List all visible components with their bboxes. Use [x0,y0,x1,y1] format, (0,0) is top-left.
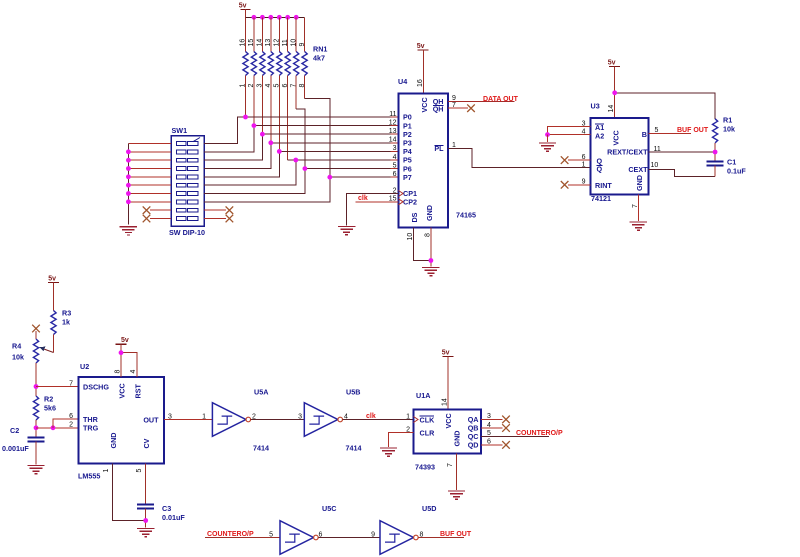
U4 left pin numbers [389,111,397,203]
node P0 row [246,116,399,118]
ground (U3 pin7) [630,222,647,230]
svg-text:11: 11 [389,111,396,118]
svg-text:U5D: U5D [422,504,436,513]
svg-text:5: 5 [655,127,659,134]
svg-text:1: 1 [103,469,110,473]
resistor RN1-e [277,52,282,76]
wire U3 pin3 [548,127,591,135]
wire clk CP1 to ground [347,194,399,226]
svg-text:6: 6 [487,439,491,446]
svg-text:clk: clk [366,413,376,420]
svg-text:GND: GND [425,205,434,221]
resistor R1 [713,119,718,143]
junction dot 5v rail [612,90,617,95]
wire SW1 row8 riser [204,177,330,202]
U1A clock arrow [414,417,419,423]
svg-text:4: 4 [130,370,137,374]
R4 bottom lead [35,363,37,396]
svg-text:3: 3 [298,413,302,420]
svg-text:0.001uF: 0.001uF [2,444,29,453]
svg-text:6: 6 [582,154,586,161]
resistor RN1-c [260,52,265,76]
svg-text:15: 15 [248,39,255,47]
wire U5A out to U5B in [251,419,305,421]
resistor RN1-b [251,52,256,76]
wire COUNTERO/P to U5C [205,537,280,539]
ground (C3) [137,529,154,537]
junction dots on 5v rail [252,15,299,20]
svg-text:RINT: RINT [595,181,612,190]
svg-text:1: 1 [406,413,410,420]
wire U1A CLR to ground [389,433,414,448]
wire to DSCHG pin 7 [36,386,79,388]
svg-text:10: 10 [407,233,414,241]
node P7 row [330,176,399,178]
svg-text:6: 6 [69,413,73,420]
svg-text:RST: RST [134,384,143,399]
wire U2 CV pin5 to C3 [145,464,147,505]
inverter U5C [280,521,318,555]
svg-text:14: 14 [608,105,615,113]
potentiometer R4 [33,339,38,363]
no-connect pin6 [561,156,569,164]
svg-text:1: 1 [582,161,586,168]
svg-text:74121: 74121 [591,194,611,203]
U4 left pin stubs (red) [391,117,399,177]
wire 5v rail to R1 [615,93,715,119]
svg-text:11: 11 [654,146,661,153]
svg-text:13: 13 [389,128,397,135]
svg-text:DS: DS [410,212,419,222]
wire U3 pin10 CEXT to C1 bottom [649,169,716,176]
power symbol 5v (RN1 rail) [239,3,251,18]
wire A1A2 to ground [547,135,549,142]
svg-text:10: 10 [290,39,297,47]
junction dots on P rows [243,115,332,180]
svg-text:3: 3 [582,120,586,127]
svg-text:16: 16 [240,39,247,47]
resistor RN1-d [268,52,273,76]
wire OUT pin 3 to U5A [164,419,212,421]
node P5 row [288,159,399,161]
node P2 row [262,133,398,135]
SW1 left pin wires rows 1-8 [128,144,171,202]
op-amp U3 74121 box [591,118,649,195]
C2 bottom lead [35,442,37,465]
svg-text:DSCHG: DSCHG [83,383,109,392]
node P1 row [254,125,399,127]
svg-text:COUNTERO/P: COUNTERO/P [516,430,563,437]
svg-text:10: 10 [651,162,659,169]
svg-text:1k: 1k [62,318,70,327]
inverter U5B [304,403,342,437]
svg-text:GND: GND [109,433,118,449]
resistor R3 [51,311,56,335]
svg-text:5v: 5v [417,43,425,50]
wire to TRG pin 2 [36,427,79,429]
switch SW1 body [171,136,204,227]
svg-text:7: 7 [632,204,639,208]
svg-text:DATA OUT: DATA OUT [483,96,519,103]
svg-text:C2: C2 [10,426,19,435]
wire SW1 row7 riser [204,169,305,194]
svg-text:7: 7 [447,463,454,467]
svg-text:14: 14 [389,137,397,144]
svg-text:5v: 5v [608,60,616,67]
no-connect QA [502,416,510,424]
no-connect QB [502,424,510,432]
svg-text:4k7: 4k7 [313,54,325,63]
wire U1A QB stub [481,427,503,429]
no-connect QD [502,441,510,449]
wire U3 pin11 to R1/C1 [649,151,716,153]
wire U1A QA stub [481,418,503,420]
svg-text:5k6: 5k6 [44,404,56,413]
svg-text:R1: R1 [723,116,732,125]
svg-text:TRG: TRG [83,424,99,433]
svg-text:U5C: U5C [322,504,336,513]
svg-text:0.1uF: 0.1uF [727,167,746,176]
svg-text:16: 16 [417,79,424,87]
svg-text:4: 4 [487,422,491,429]
junction dot THR branch [51,425,56,430]
node P4 row [279,150,398,152]
svg-text:REXT/CEXT: REXT/CEXT [607,147,648,156]
svg-text:5v: 5v [442,350,450,357]
capacitor C3 [137,505,154,509]
op-amp U2 LM555 box [79,377,165,464]
svg-text:C1: C1 [727,158,736,167]
svg-text:14: 14 [441,398,448,406]
ground (U1A CLR) [380,448,397,456]
svg-text:BUF OUT: BUF OUT [677,127,709,134]
svg-text:U3: U3 [591,102,600,111]
R1 bottom lead [714,143,716,162]
svg-text:0.01uF: 0.01uF [162,513,185,522]
power symbol 5v (U2) [116,337,129,353]
SW1 switch elements rows 1-10 [177,138,201,221]
svg-text:RN1: RN1 [313,45,327,54]
wire THR branch to pin 6 [53,419,79,428]
svg-text:3: 3 [393,145,397,152]
wire 5v to VCC RST pins [121,353,137,377]
svg-text:C3: C3 [162,504,171,513]
ground (U4 GND) [422,268,439,276]
R4 top lead [35,331,37,339]
svg-text:U2: U2 [80,362,89,371]
junction dots on SW1 bus [126,149,131,204]
svg-text:3: 3 [168,413,172,420]
svg-text:B: B [642,130,647,139]
svg-text:GND: GND [453,431,462,447]
svg-text:R3: R3 [62,309,71,318]
ground (C2) [27,466,44,474]
wire U4 pin7 QHbar stub [448,107,468,109]
wire SW1 ground bus [127,144,129,225]
SW1 unused row 9 stubs with no-connects [150,209,171,211]
power symbol 5v (U3) [608,60,620,93]
svg-text:CLR: CLR [420,429,436,438]
wire U5B out to U1A CLK [343,419,414,421]
svg-text:5: 5 [487,430,491,437]
wire U3 pin6 Q stub [568,159,591,161]
ground (CP1) [338,227,355,235]
svg-text:U4: U4 [398,77,407,86]
svg-text:U5B: U5B [346,388,360,397]
junction dot R2/C2/TRG [34,425,39,430]
ground (SW1 bus) [120,227,137,235]
wire U4 pin10 DS [413,228,431,261]
wire U3 pin5 BUF OUT [649,132,691,134]
svg-text:5v: 5v [48,276,56,283]
R2 bottom lead [35,420,37,438]
svg-text:QD: QD [468,441,479,450]
resistor network RN1 top leads [246,17,305,51]
svg-text:4: 4 [393,154,397,161]
wire CP2 clk stub [356,201,399,203]
wire U4 PL pin1 to U3 Qbar [448,148,591,167]
svg-text:U1A: U1A [416,391,430,400]
capacitor C1 [707,162,724,166]
svg-text:SW1: SW1 [172,126,188,135]
svg-text:2: 2 [69,422,73,429]
wire 5v rail [246,16,305,18]
potentiometer R4 wiper arrow [39,347,53,353]
svg-text:VCC: VCC [420,97,429,112]
svg-text:CLK: CLK [420,416,436,425]
svg-text:12: 12 [389,119,397,126]
svg-text:1: 1 [452,142,456,149]
junction dot R4/R2/DSCHG [34,384,39,389]
node P3 row [271,142,399,144]
C1 bottom lead [714,166,716,177]
svg-text:5: 5 [393,162,397,169]
svg-text:74393: 74393 [415,463,435,472]
junction dot R1/C1/pin11 [713,150,718,155]
svg-text:6: 6 [393,171,397,178]
ground (U3 A1 A2) [539,143,556,151]
svg-text:14: 14 [257,39,264,47]
resistor R2 [33,396,38,420]
svg-text:GND: GND [635,175,644,191]
resistor RN1-h [302,52,307,76]
wire jog RN1-h to P7 column [305,99,330,178]
inverter U5A [212,403,250,437]
svg-text:OUT: OUT [143,415,159,424]
svg-text:2: 2 [406,426,410,433]
svg-text:LM555: LM555 [78,472,100,481]
junction dot C3/GND [143,518,148,523]
svg-text:5v: 5v [121,337,129,344]
svg-text:9: 9 [582,179,586,186]
svg-text:9: 9 [371,531,375,538]
junction dot 5v split [119,350,124,355]
svg-text:U5A: U5A [254,388,268,397]
wire U3 pin4 [548,134,591,136]
svg-text:8: 8 [424,233,431,237]
wire SW1 row6 riser [204,160,296,185]
resistor RN1-g [294,52,299,76]
U4 pin names P0-P7 [403,113,417,207]
svg-text:7414: 7414 [253,444,269,453]
wire U4 pin9 QH DATA OUT [448,100,515,102]
svg-text:CEXT: CEXT [628,165,648,174]
svg-text:12: 12 [274,39,281,47]
U4 clock arrows CP1 CP2 [399,191,404,205]
counter U1A 74393 box [414,410,482,454]
svg-text:CV: CV [142,438,151,448]
svg-text:VCC: VCC [118,383,127,398]
wire U4 pin8 GND [430,228,432,267]
svg-text:R2: R2 [44,395,53,404]
RN1 bottom leads [246,76,305,161]
svg-text:8: 8 [115,370,122,374]
svg-text:VCC: VCC [444,413,453,428]
svg-text:5: 5 [136,469,143,473]
wire U1A QC COUNTERO/P [481,435,549,437]
svg-text:7414: 7414 [346,444,362,453]
resistor RN1-a [243,52,248,76]
svg-text:CP2: CP2 [403,198,417,207]
wire U1A pin7 GND [456,454,458,491]
svg-text:clk: clk [358,195,368,202]
svg-text:COUNTERO/P: COUNTERO/P [207,531,254,538]
SW1 unused row 10 stubs with no-connects [150,218,171,220]
junction dot A1/A2 [545,132,550,137]
ground (U1A pin7) [448,491,465,499]
wire SW1 row5 riser [204,151,279,176]
power symbol 5v (R3) [48,276,59,311]
inverter U5D [380,521,418,555]
svg-text:SW DIP-10: SW DIP-10 [169,228,205,237]
wire U2 GND pin1 [113,464,146,521]
wire U3 pin9 RINT stub [568,184,591,186]
svg-text:10k: 10k [723,125,735,134]
svg-text:VCC: VCC [612,130,621,145]
no-connect pin9 [561,181,569,189]
svg-text:5v: 5v [239,3,247,10]
power symbol 5v (U1A) [442,350,454,410]
RN1 pin numbers 16..9 [240,39,306,47]
wire U5C out to U5D in [318,537,380,539]
power symbol 5v (U4) [417,43,429,94]
wire SW1 row3 riser [204,134,262,160]
junction dot pin8/pin10 [429,258,434,263]
wire SW1 row1 to P0 [204,117,246,144]
svg-text:9: 9 [299,43,306,47]
U1A QA QB QC QD labels [468,415,479,449]
svg-text:3: 3 [487,413,491,420]
R3 bottom lead [53,335,55,353]
svg-text:THR: THR [83,415,99,424]
svg-text:7: 7 [69,380,73,387]
svg-text:1: 1 [202,413,206,420]
svg-text:5: 5 [269,531,273,538]
svg-text:R4: R4 [12,342,21,351]
svg-text:BUF OUT: BUF OUT [440,531,472,538]
no-connect on pin 7 [467,104,475,112]
svg-text:P7: P7 [403,173,412,182]
wire U3 pin14 [614,93,616,118]
no-connect R4 top [32,325,40,333]
wire jog RN1-g to P6 column [296,109,305,169]
wire U3 pin7 to ground [637,195,639,222]
resistor RN1-f [285,52,290,76]
op-amp U4 74165 box [399,94,449,228]
wire SW1 row2 riser [204,126,254,152]
svg-text:A2: A2 [595,132,604,141]
svg-text:7: 7 [452,102,456,109]
svg-text:13: 13 [265,39,272,47]
C3 bottom lead [145,509,147,528]
wire SW1 row4 riser [204,143,271,169]
RN1 pin numbers 1..8 [240,84,306,88]
capacitor C2 [28,438,45,442]
svg-text:11: 11 [282,39,289,46]
svg-text:74165: 74165 [456,211,476,220]
svg-text:10k: 10k [12,353,24,362]
node P6 row [305,168,399,170]
wire U5D out BUF OUT [418,537,464,539]
wire U1A QD stub [481,444,503,446]
svg-text:4: 4 [582,128,586,135]
